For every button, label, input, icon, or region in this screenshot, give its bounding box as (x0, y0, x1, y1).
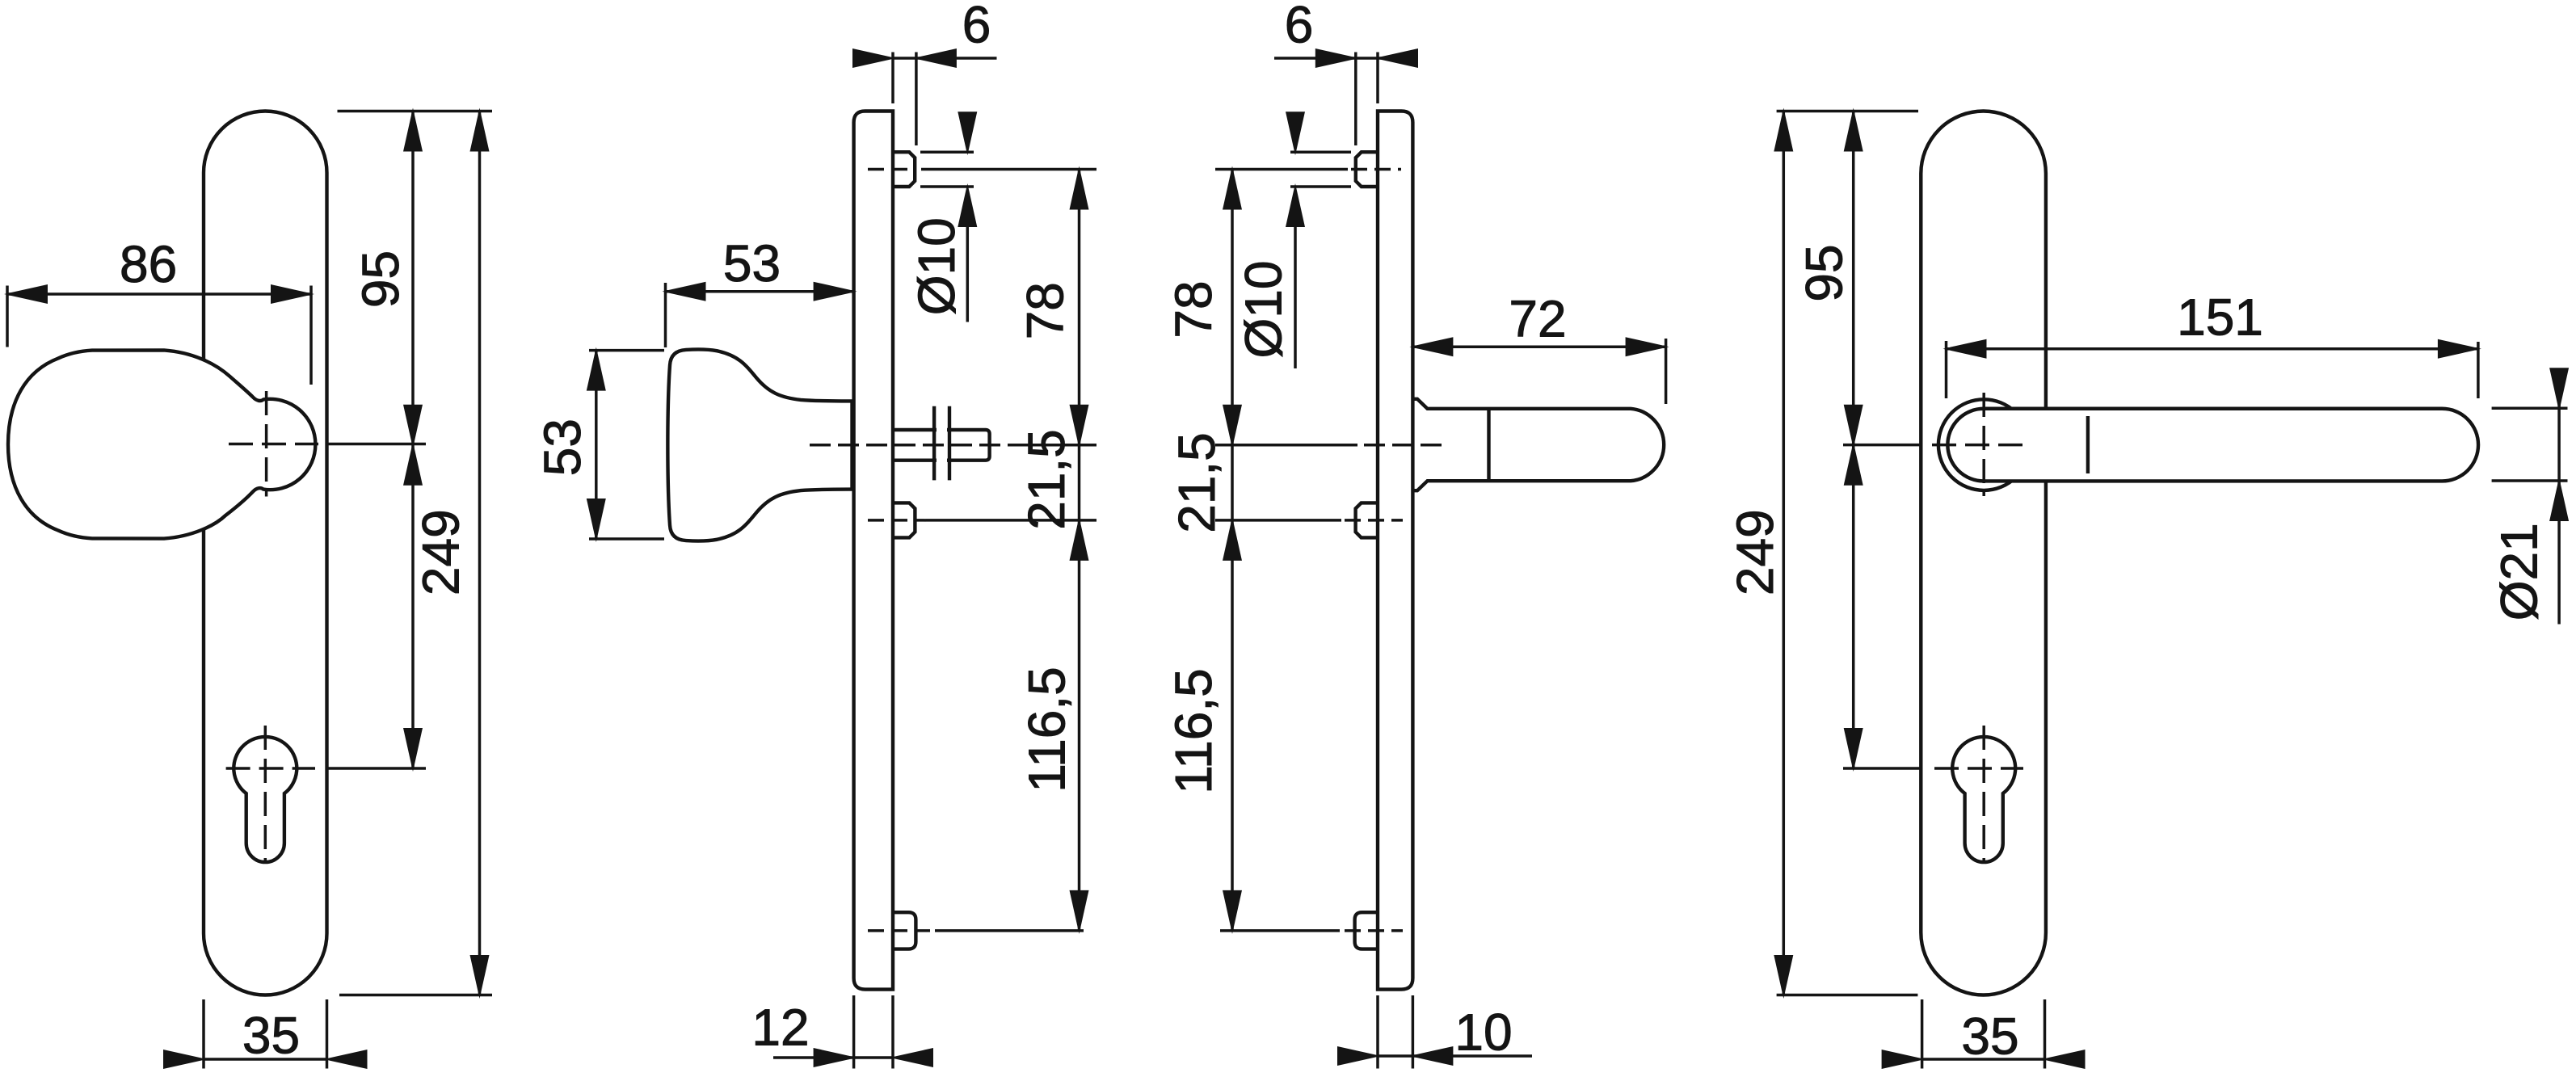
svg-text:Ø21: Ø21 (2490, 523, 2548, 621)
svg-text:53: 53 (533, 419, 591, 476)
svg-text:6: 6 (962, 0, 991, 54)
svg-text:12: 12 (751, 998, 809, 1056)
svg-text:72: 72 (1509, 289, 1566, 347)
svg-text:10: 10 (1454, 1003, 1512, 1061)
svg-text:Ø10: Ø10 (907, 217, 966, 315)
svg-text:6: 6 (1285, 0, 1314, 54)
svg-text:35: 35 (1961, 1007, 2018, 1065)
svg-text:249: 249 (1726, 509, 1784, 595)
svg-text:116,5: 116,5 (1017, 667, 1075, 792)
svg-text:53: 53 (723, 234, 781, 292)
svg-text:249: 249 (411, 509, 469, 595)
svg-text:78: 78 (1017, 282, 1075, 339)
svg-text:21,5: 21,5 (1168, 432, 1226, 533)
svg-text:Ø10: Ø10 (1234, 261, 1292, 359)
svg-text:86: 86 (120, 235, 177, 293)
svg-text:151: 151 (2177, 288, 2263, 346)
svg-text:35: 35 (242, 1006, 300, 1064)
svg-text:95: 95 (351, 250, 410, 308)
svg-text:21,5: 21,5 (1017, 429, 1075, 530)
svg-text:95: 95 (1795, 244, 1853, 301)
svg-text:116,5: 116,5 (1164, 668, 1223, 793)
svg-text:78: 78 (1164, 280, 1223, 338)
